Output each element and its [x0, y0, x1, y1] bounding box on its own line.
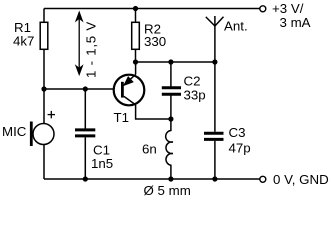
svg-text:C2: C2 [184, 74, 201, 89]
wire C3 upper [214, 62, 216, 132]
resistor R2 [132, 22, 140, 49]
inductor L1 6n coil [166, 119, 173, 179]
svg-text:Ant.: Ant. [224, 19, 248, 34]
svg-text:330: 330 [144, 34, 166, 49]
svg-text:33p: 33p [184, 88, 206, 103]
svg-text:3 mA: 3 mA [280, 15, 311, 30]
svg-text:6n: 6n [142, 142, 157, 157]
microphone MIC [31, 122, 54, 147]
wire C2 lower [170, 95, 172, 119]
wire C1 upper [84, 89, 86, 129]
node C2 top junction [168, 59, 173, 64]
node C1 bottom junction [83, 176, 88, 181]
wire C2 upper [170, 62, 172, 87]
svg-text:0 V, GND: 0 V, GND [273, 172, 329, 187]
wire base row (left rail to T1 base) [44, 88, 122, 90]
capacitor C2 [162, 88, 181, 95]
node base row left junction [41, 86, 46, 91]
wire C1 lower [84, 137, 86, 179]
capacitor C3 [204, 133, 224, 139]
svg-text:+3 V/: +3 V/ [272, 1, 304, 16]
node tank junction (collector/C2/L) [168, 116, 173, 121]
node R2 top junction [133, 6, 138, 11]
svg-text:1n5: 1n5 [91, 156, 113, 171]
terminal +3V [260, 6, 266, 12]
node coil bottom junction [168, 176, 173, 181]
terminal 0V GND [260, 176, 266, 182]
node emitter junction [133, 59, 138, 64]
wire bottom 0V rail [44, 178, 260, 180]
svg-text:T1: T1 [114, 110, 130, 125]
label MIC polarity + [48, 111, 55, 118]
antenna [206, 16, 224, 26]
node antenna junction [212, 59, 217, 64]
capacitor C1 [75, 130, 95, 136]
node C1 top junction [83, 86, 88, 91]
transistor T1 (PNP) [114, 62, 145, 105]
svg-text:MIC: MIC [2, 124, 27, 139]
wire R2 top [135, 9, 137, 24]
svg-text:Ø 5 mm: Ø 5 mm [144, 183, 191, 198]
svg-text:C3: C3 [229, 125, 246, 140]
wire antenna lead [214, 26, 216, 62]
wire collector to tank node [136, 105, 171, 119]
svg-text:47p: 47p [229, 141, 251, 156]
node C3 bottom junction [212, 176, 217, 181]
wire emitter row (R2 to antenna) [136, 61, 215, 63]
wire C3 lower [214, 141, 216, 179]
resistor R1 [40, 22, 48, 49]
wire left rail (R1/MIC branch) [43, 9, 45, 180]
wire R2 bottom to emitter row [135, 49, 137, 62]
svg-text:4k7: 4k7 [13, 33, 34, 48]
svg-text:1 - 1,5 V: 1 - 1,5 V [84, 21, 99, 78]
voltage annotation arrow 1 - 1,5 V [76, 12, 83, 75]
wire top +3V rail [44, 8, 260, 10]
